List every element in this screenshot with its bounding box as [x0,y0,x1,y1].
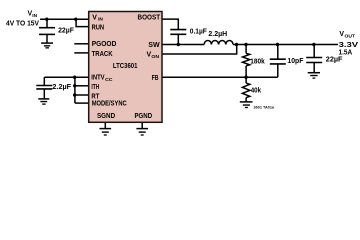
capacitor C_FF 10pF stem bottom [277,64,279,77]
svg-text:RUN: RUN [92,25,105,32]
capacitor C_VCC 2.2uF stem top [43,77,45,85]
op-amp U1 LTC3601 body [89,12,162,123]
svg-text:3601 TA01a: 3601 TA01a [254,105,275,109]
ground at PGND [141,122,143,128]
node dot INTVCC bus RT [73,93,76,96]
svg-text:MODE/SYNC: MODE/SYNC [92,101,127,108]
wire RT stub [75,94,89,96]
wire ITH stub [75,85,89,87]
ground at SGND [104,122,106,128]
wire SW [162,44,204,46]
wire PGOOD stub [74,43,88,45]
capacitor C_VCC 2.2uF plates [36,85,52,87]
node dot INTVCC bus ITH [73,84,76,87]
capacitor C_IN 22uF plates [39,27,55,29]
wire MODE/SYNC stub [75,102,89,104]
resistor R1 180k top lead [245,45,247,54]
node dot rail / R1 [244,43,247,46]
node dot input rail / C_IN [45,18,48,21]
resistor R1 180k bottom lead [245,66,247,77]
resistor R2 40k top lead [245,77,247,83]
svg-text:V: V [92,15,97,22]
svg-text:4V TO 15V: 4V TO 15V [6,18,39,27]
svg-text:0.1µF: 0.1µF [190,28,208,35]
ground at C_IN [41,42,53,44]
ground at C_OUT [308,72,320,74]
svg-text:RT: RT [91,93,100,100]
svg-text:180k: 180k [250,59,264,66]
svg-text:TRACK: TRACK [92,51,113,58]
node dot rail / C_OUT [312,43,315,46]
capacitor C_IN 22uF stem bottom [46,35,48,43]
svg-text:PGND: PGND [135,113,153,120]
svg-text:OUT: OUT [345,34,356,40]
svg-text:FB: FB [152,75,159,82]
wire FB [162,76,278,78]
capacitor C_VCC 2.2uF stem bottom [43,89,45,98]
wire BOOST [162,19,178,29]
svg-text:SGND: SGND [97,113,115,120]
svg-text:2.2µH: 2.2µH [208,31,227,38]
svg-text:2.2µF: 2.2µF [52,84,71,91]
resistor R1 180k body [243,53,250,65]
capacitor C_OUT 22uF stem bottom [313,63,315,72]
capacitor C_BOOST 0.1uF stem bottom [177,35,179,45]
capacitor C_OUT 22uF plates [306,57,322,59]
svg-text:CC: CC [105,77,113,83]
ground at C_VCC [38,98,49,100]
capacitor C_FF 10pF plates [270,58,286,60]
wire INTVCC bus vertical [74,77,76,103]
svg-text:LTC3601: LTC3601 [113,63,138,70]
svg-text:ON: ON [151,54,159,60]
capacitor C_FF 10pF stem top [277,45,279,59]
capacitor C_BOOST 0.1uF plates [170,29,186,31]
svg-text:10pF: 10pF [287,58,304,65]
svg-text:ITH: ITH [91,84,99,91]
node dot FB divider [244,76,247,79]
wire TRACK stub [74,52,88,54]
svg-text:IN: IN [98,17,103,23]
resistor R2 40k bottom lead [245,98,247,102]
capacitor C_OUT 22uF stem top [313,45,315,58]
svg-text:1.5A: 1.5A [339,47,353,56]
svg-text:22µF: 22µF [326,57,343,64]
svg-text:22µF: 22µF [58,27,75,34]
wire RUN branch [76,19,89,26]
svg-text:INTV: INTV [91,75,105,82]
node dot INTVCC bus top [73,76,76,79]
node dot SW / C_BOOST [177,43,180,46]
wire INTVCC net horizontal [44,76,88,78]
svg-text:SW: SW [148,42,160,49]
node dot rail / VON riser [235,43,238,46]
wire output rail [233,44,338,46]
wire input rail VIN [40,18,89,20]
capacitor C_IN 22uF stem top [46,19,48,27]
svg-text:40k: 40k [251,87,261,94]
svg-text:BOOST: BOOST [138,15,161,22]
svg-text:PGOOD: PGOOD [92,41,117,48]
node dot rail / C_FF [276,43,279,46]
inductor L1 2.2uH [204,40,233,44]
node dot input rail / RUN [74,18,77,21]
resistor R2 40k body [242,83,249,98]
ground at R2 40k [240,101,253,103]
wire VON [162,45,237,55]
